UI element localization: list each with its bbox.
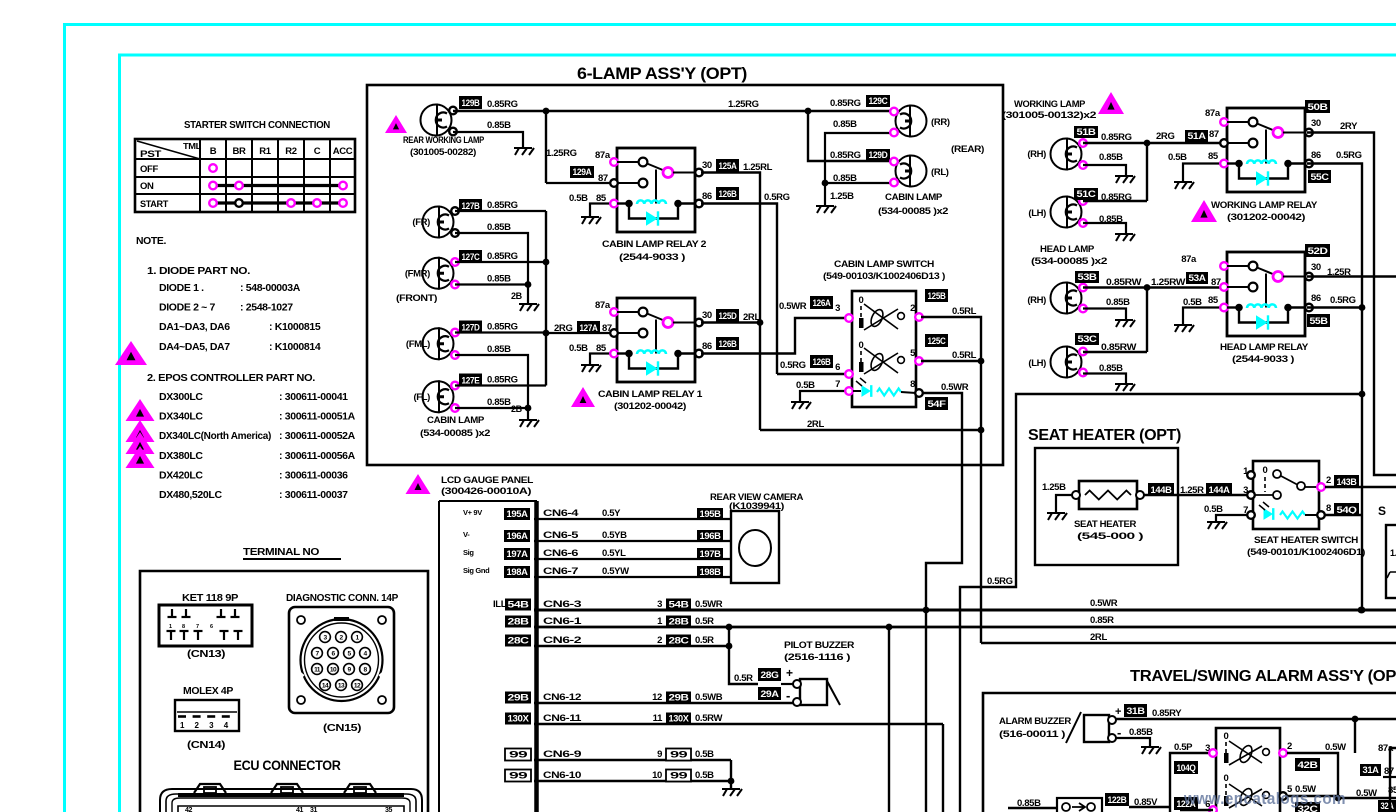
svg-text:(FML): (FML) <box>406 339 430 350</box>
svg-text:31: 31 <box>310 807 318 812</box>
svg-text:DX480,520LC: DX480,520LC <box>159 489 222 501</box>
svg-text:(RH): (RH) <box>1027 295 1046 306</box>
svg-text:B: B <box>210 146 217 157</box>
svg-text:30: 30 <box>702 310 712 321</box>
svg-text:0.85B: 0.85B <box>487 222 511 233</box>
svg-text:28B: 28B <box>669 617 690 627</box>
svg-text:0.5R: 0.5R <box>695 635 714 646</box>
svg-text:54Q: 54Q <box>1337 505 1357 515</box>
svg-text:PST: PST <box>140 149 162 160</box>
svg-text:2RL: 2RL <box>1090 632 1107 643</box>
svg-text:196B: 196B <box>700 531 722 541</box>
svg-text:8: 8 <box>1326 503 1331 514</box>
svg-text:CN6-2: CN6-2 <box>543 635 581 646</box>
svg-text:2RG: 2RG <box>1156 131 1174 142</box>
svg-text:2B: 2B <box>511 291 523 301</box>
svg-text:(301005-00282): (301005-00282) <box>410 147 476 158</box>
svg-text:WORKING LAMP: WORKING LAMP <box>1014 99 1086 110</box>
svg-text:(LH): (LH) <box>1028 208 1046 219</box>
svg-text:0.5WR: 0.5WR <box>779 301 807 312</box>
svg-text:126B: 126B <box>813 357 832 367</box>
svg-text:10: 10 <box>652 770 662 781</box>
svg-text:: 300611-00037: : 300611-00037 <box>279 489 348 501</box>
svg-text:: 300611-00041: : 300611-00041 <box>279 391 348 403</box>
svg-text:125A: 125A <box>719 161 738 171</box>
svg-text:2B: 2B <box>511 404 523 414</box>
svg-text:0.5B: 0.5B <box>1183 297 1202 308</box>
svg-text:1.25R: 1.25R <box>1180 485 1204 496</box>
svg-text:R2: R2 <box>285 146 297 157</box>
svg-text:0.85B: 0.85B <box>487 344 511 355</box>
svg-text:DX340LC(North America): DX340LC(North America) <box>159 430 271 442</box>
svg-text:+: + <box>786 666 793 680</box>
svg-text:9: 9 <box>657 749 662 760</box>
svg-text:0.5W: 0.5W <box>1325 742 1346 753</box>
svg-text:(FR): (FR) <box>412 217 430 228</box>
svg-text:(545-000 ): (545-000 ) <box>1077 531 1143 542</box>
svg-text:87a: 87a <box>595 300 611 311</box>
svg-text:(RL): (RL) <box>931 167 949 178</box>
svg-text:28C: 28C <box>508 636 530 646</box>
svg-text:0.5WR: 0.5WR <box>941 382 969 393</box>
svg-text:0.85B: 0.85B <box>487 397 511 408</box>
svg-text:(CN15): (CN15) <box>323 722 361 734</box>
svg-text:2: 2 <box>910 303 915 314</box>
svg-text:86: 86 <box>702 341 712 352</box>
svg-text:2: 2 <box>657 635 662 646</box>
svg-text:144B: 144B <box>1151 485 1173 495</box>
svg-text:30: 30 <box>1311 262 1321 273</box>
svg-text:130X: 130X <box>669 714 689 724</box>
svg-text:12: 12 <box>652 692 662 703</box>
svg-text:144A: 144A <box>1209 485 1231 495</box>
svg-text:129C: 129C <box>869 96 889 106</box>
svg-text:0.85B: 0.85B <box>1099 363 1123 374</box>
svg-text:122B: 122B <box>1108 795 1128 805</box>
svg-text:2: 2 <box>1287 741 1292 752</box>
svg-text:: 300611-00056A: : 300611-00056A <box>279 450 356 462</box>
svg-text:87a: 87a <box>1181 254 1197 265</box>
svg-text:99: 99 <box>670 771 688 781</box>
svg-text:(534-00085 )x2: (534-00085 )x2 <box>878 206 948 217</box>
svg-text:OFF: OFF <box>140 164 158 175</box>
svg-text:125B: 125B <box>928 291 947 301</box>
svg-text:0.5WB: 0.5WB <box>695 692 723 703</box>
svg-text:SEAT HEATER (OPT): SEAT HEATER (OPT) <box>1028 427 1181 444</box>
svg-text:: K1000814: : K1000814 <box>269 341 321 353</box>
svg-text:START: START <box>140 199 169 210</box>
svg-text:STARTER SWITCH CONNECTION: STARTER SWITCH CONNECTION <box>184 119 330 131</box>
svg-text:130X: 130X <box>508 714 529 724</box>
svg-text:CN6-4: CN6-4 <box>543 508 579 519</box>
svg-text:0.85B: 0.85B <box>1099 152 1123 163</box>
svg-text:28G: 28G <box>761 670 779 680</box>
svg-text:LCD GAUGE PANEL: LCD GAUGE PANEL <box>441 475 534 486</box>
svg-text:28B: 28B <box>508 617 530 627</box>
svg-text:6: 6 <box>835 362 840 373</box>
svg-text:+: + <box>1115 706 1121 718</box>
svg-text:(2544-9033 ): (2544-9033 ) <box>1232 354 1294 365</box>
svg-text:ACC: ACC <box>333 146 353 157</box>
svg-text:85: 85 <box>1208 295 1219 306</box>
svg-text:0.5Y: 0.5Y <box>602 508 621 519</box>
svg-text:2RL: 2RL <box>807 419 824 430</box>
svg-text:0.5RW: 0.5RW <box>695 713 722 724</box>
svg-text:CABIN LAMP: CABIN LAMP <box>427 415 485 426</box>
svg-text:0.85RG: 0.85RG <box>830 98 861 109</box>
svg-text:: K1000815: : K1000815 <box>269 321 321 333</box>
svg-text:127E: 127E <box>462 376 480 386</box>
svg-text:86: 86 <box>702 191 712 202</box>
svg-text:197A: 197A <box>507 549 529 559</box>
svg-text:CABIN LAMP RELAY 1: CABIN LAMP RELAY 1 <box>598 389 703 400</box>
svg-text:28C: 28C <box>669 636 690 646</box>
svg-text:87a: 87a <box>1205 108 1221 119</box>
svg-text:: 300611-00051A: : 300611-00051A <box>279 411 356 423</box>
svg-text:0.85B: 0.85B <box>1106 297 1130 308</box>
svg-text:DA4~DA5, DA7: DA4~DA5, DA7 <box>159 341 230 353</box>
svg-text:0.5B: 0.5B <box>695 749 714 760</box>
svg-text:198B: 198B <box>700 567 722 577</box>
svg-text:14: 14 <box>322 683 329 690</box>
svg-text:195B: 195B <box>700 509 722 519</box>
svg-text:(FRONT): (FRONT) <box>396 293 437 304</box>
svg-text:(516-00011 ): (516-00011 ) <box>999 729 1065 740</box>
svg-text:1.: 1. <box>1390 548 1396 558</box>
svg-text:DX380LC: DX380LC <box>159 450 203 462</box>
svg-text:196A: 196A <box>507 531 529 541</box>
svg-text:0.5WR: 0.5WR <box>695 599 723 610</box>
svg-text:1.25RG: 1.25RG <box>728 99 759 110</box>
svg-text:127A: 127A <box>580 323 599 333</box>
svg-text:0: 0 <box>1263 465 1268 476</box>
svg-text:: 548-00003A: : 548-00003A <box>240 282 301 294</box>
svg-text:(CN13): (CN13) <box>187 648 225 660</box>
svg-text:ECU CONNECTOR: ECU CONNECTOR <box>234 758 342 773</box>
svg-text:53B: 53B <box>1078 272 1098 282</box>
svg-text:51C: 51C <box>1077 189 1097 199</box>
svg-text:(534-00085 )x2: (534-00085 )x2 <box>420 428 490 439</box>
svg-text:0.85RG: 0.85RG <box>830 150 861 161</box>
svg-text:195A: 195A <box>507 509 529 519</box>
svg-text:CN6-3: CN6-3 <box>543 599 581 610</box>
svg-text:10: 10 <box>330 667 337 674</box>
svg-text:R1: R1 <box>259 146 272 157</box>
svg-text:TRAVEL/SWING ALARM ASS'Y (OP: TRAVEL/SWING ALARM ASS'Y (OP <box>1130 668 1396 685</box>
svg-text:7: 7 <box>835 379 840 390</box>
svg-text:55C: 55C <box>1311 172 1330 182</box>
svg-text:REAR WORKING LAMP: REAR WORKING LAMP <box>403 135 485 146</box>
svg-text:0.85RG: 0.85RG <box>487 200 518 211</box>
svg-text:-: - <box>786 688 790 703</box>
svg-text:0.5B: 0.5B <box>569 193 588 204</box>
svg-text:29B: 29B <box>508 693 530 703</box>
svg-text:MOLEX 4P: MOLEX 4P <box>183 685 233 697</box>
svg-text:: 300611-00036: : 300611-00036 <box>279 469 348 481</box>
svg-text:0: 0 <box>859 340 864 351</box>
svg-text:29B: 29B <box>669 693 690 703</box>
svg-text:0.5YL: 0.5YL <box>602 548 626 559</box>
svg-text:(534-00085 )x2: (534-00085 )x2 <box>1031 256 1107 267</box>
svg-text:0.85B: 0.85B <box>487 120 511 131</box>
svg-text:DA1~DA3, DA6: DA1~DA3, DA6 <box>159 321 230 333</box>
svg-text:CN6-12: CN6-12 <box>543 692 581 703</box>
svg-text:0.5B: 0.5B <box>1204 504 1223 515</box>
svg-text:42: 42 <box>185 807 193 812</box>
svg-text:129D: 129D <box>869 150 889 160</box>
svg-text:127B: 127B <box>462 201 481 211</box>
svg-text:0.85RG: 0.85RG <box>487 251 518 262</box>
svg-text:29A: 29A <box>761 689 780 699</box>
svg-text:1. DIODE PART NO.: 1. DIODE PART NO. <box>147 265 250 277</box>
svg-text:CN6-1: CN6-1 <box>543 616 583 627</box>
svg-text:6: 6 <box>210 624 213 630</box>
svg-text:CN6-10: CN6-10 <box>543 770 581 781</box>
svg-text:32A: 32A <box>1381 801 1395 811</box>
svg-text:1.25B: 1.25B <box>1042 482 1066 493</box>
svg-text:198A: 198A <box>507 567 529 577</box>
svg-text:0.5RG: 0.5RG <box>987 576 1013 587</box>
svg-text:0.5YW: 0.5YW <box>602 566 629 577</box>
svg-text:0.5RG: 0.5RG <box>780 360 806 371</box>
svg-text:ILL: ILL <box>493 599 507 610</box>
svg-text:(2516-1116 ): (2516-1116 ) <box>784 652 850 663</box>
svg-text:0.85B: 0.85B <box>487 274 511 285</box>
svg-text:CN6-7: CN6-7 <box>543 566 578 577</box>
svg-text:DX300LC: DX300LC <box>159 391 203 403</box>
svg-text:0.5R: 0.5R <box>734 673 753 684</box>
svg-text:CN6-9: CN6-9 <box>543 749 581 760</box>
svg-text:6-LAMP ASS'Y (OPT): 6-LAMP ASS'Y (OPT) <box>577 65 747 83</box>
svg-text:(RR): (RR) <box>931 117 950 128</box>
svg-text:127C: 127C <box>462 252 481 262</box>
svg-text:35: 35 <box>385 807 393 812</box>
svg-text:Sig Gnd: Sig Gnd <box>463 566 490 575</box>
svg-text:87: 87 <box>1209 129 1219 140</box>
svg-text:HEAD LAMP RELAY: HEAD LAMP RELAY <box>1220 342 1309 353</box>
svg-text:125C: 125C <box>928 336 947 346</box>
svg-text:(LH): (LH) <box>1028 358 1046 369</box>
svg-text:104Q: 104Q <box>1177 763 1196 773</box>
svg-text:0.85RG: 0.85RG <box>1101 132 1132 143</box>
svg-text:3: 3 <box>657 599 662 610</box>
svg-text:V+ 9V: V+ 9V <box>463 508 482 517</box>
svg-text:125D: 125D <box>719 311 738 321</box>
svg-text:(RH): (RH) <box>1027 149 1046 160</box>
svg-text:0.85B: 0.85B <box>1129 727 1153 738</box>
svg-text:86: 86 <box>1311 293 1321 304</box>
svg-text:www.epcatalogs.com: www.epcatalogs.com <box>1183 789 1346 808</box>
svg-text:0.5WR: 0.5WR <box>1090 598 1118 609</box>
svg-text:0.5B: 0.5B <box>1168 152 1187 163</box>
svg-text:30: 30 <box>702 160 712 171</box>
svg-text:(CN14): (CN14) <box>187 739 225 751</box>
svg-text:S: S <box>1378 504 1386 518</box>
svg-text:NOTE.: NOTE. <box>136 235 166 247</box>
svg-text:54B: 54B <box>669 600 690 610</box>
svg-text:54B: 54B <box>508 600 530 610</box>
svg-text:(549-00101/K1002406D1): (549-00101/K1002406D1) <box>1247 547 1365 558</box>
svg-text:SEAT HEATER: SEAT HEATER <box>1074 519 1136 530</box>
svg-text:7: 7 <box>196 624 199 630</box>
svg-text:0.5RG: 0.5RG <box>1336 150 1362 161</box>
svg-text:99: 99 <box>509 750 528 760</box>
svg-text:0.5P: 0.5P <box>1174 742 1193 753</box>
svg-text:0: 0 <box>1224 731 1229 742</box>
svg-text:99: 99 <box>670 750 688 760</box>
svg-text:1: 1 <box>169 624 172 630</box>
svg-text:52D: 52D <box>1308 246 1329 256</box>
svg-text:CN6-5: CN6-5 <box>543 530 579 541</box>
svg-text:Sig: Sig <box>463 548 474 557</box>
svg-text:(301202-00042): (301202-00042) <box>1227 212 1305 223</box>
svg-text:129B: 129B <box>462 98 481 108</box>
svg-text:CABIN LAMP: CABIN LAMP <box>885 192 943 203</box>
svg-text:42B: 42B <box>1298 760 1319 770</box>
svg-text:DIODE 2 ~ 7: DIODE 2 ~ 7 <box>159 302 215 314</box>
svg-text:126A: 126A <box>813 298 832 308</box>
svg-text:1.25RG: 1.25RG <box>546 148 577 159</box>
svg-text:0.5RG: 0.5RG <box>1330 295 1356 306</box>
svg-text:SEAT HEATER SWITCH: SEAT HEATER SWITCH <box>1254 535 1359 546</box>
svg-text:53A: 53A <box>1189 273 1207 283</box>
svg-text:0.5RG: 0.5RG <box>764 192 790 203</box>
svg-text:0.85RG: 0.85RG <box>487 99 518 110</box>
svg-text:0.5RL: 0.5RL <box>952 306 977 317</box>
svg-text:31A: 31A <box>1363 765 1380 775</box>
svg-text:0.5RL: 0.5RL <box>952 350 977 361</box>
svg-text:(REAR): (REAR) <box>951 144 984 155</box>
svg-text:99: 99 <box>509 771 528 781</box>
svg-text:85: 85 <box>1208 151 1219 162</box>
svg-text:54F: 54F <box>928 399 947 409</box>
svg-text:0.5B: 0.5B <box>695 770 714 781</box>
svg-text:(301202-00042): (301202-00042) <box>614 401 686 412</box>
svg-text:85: 85 <box>596 343 607 354</box>
svg-text:DIAGNOSTIC CONN. 14P: DIAGNOSTIC CONN. 14P <box>286 592 398 604</box>
svg-text:(2544-9033 ): (2544-9033 ) <box>619 252 685 263</box>
svg-text:31B: 31B <box>1127 706 1146 716</box>
svg-text:C: C <box>314 146 321 157</box>
svg-text:13: 13 <box>338 683 345 690</box>
svg-text:BR: BR <box>232 146 246 157</box>
svg-text:3: 3 <box>835 303 840 314</box>
svg-text:2: 2 <box>1326 475 1331 486</box>
svg-text:WORKING LAMP RELAY: WORKING LAMP RELAY <box>1211 200 1318 211</box>
svg-text:ON: ON <box>140 181 154 192</box>
svg-text:53C: 53C <box>1078 334 1098 344</box>
svg-text:TML: TML <box>183 141 201 151</box>
svg-text:51A: 51A <box>1188 131 1207 141</box>
svg-text:11: 11 <box>314 667 321 674</box>
svg-text:CABIN LAMP SWITCH: CABIN LAMP SWITCH <box>834 259 935 270</box>
svg-text:0.85RG: 0.85RG <box>487 322 518 333</box>
svg-text:CN6-6: CN6-6 <box>543 548 578 559</box>
svg-text:126B: 126B <box>719 189 738 199</box>
svg-text:197B: 197B <box>700 549 722 559</box>
svg-text:0: 0 <box>859 295 864 306</box>
svg-text:DIODE 1 .: DIODE 1 . <box>159 282 204 294</box>
svg-text:0.5YB: 0.5YB <box>602 530 627 541</box>
svg-text:DX420LC: DX420LC <box>159 469 203 481</box>
svg-text:: 300611-00052A: : 300611-00052A <box>279 430 356 442</box>
svg-text:V-: V- <box>463 530 470 539</box>
svg-text:CN6-11: CN6-11 <box>543 713 582 724</box>
svg-text:0: 0 <box>1224 773 1229 784</box>
svg-text:0.85RG: 0.85RG <box>487 375 518 386</box>
svg-text:0.5B: 0.5B <box>569 343 588 354</box>
svg-text:0.5B: 0.5B <box>796 380 815 391</box>
svg-text:2. EPOS CONTROLLER PART NO.: 2. EPOS CONTROLLER PART NO. <box>147 372 315 384</box>
svg-text:11: 11 <box>653 713 663 724</box>
svg-text:0.85B: 0.85B <box>833 119 857 130</box>
svg-text:1.25B: 1.25B <box>830 191 854 202</box>
svg-text:CABIN LAMP RELAY 2: CABIN LAMP RELAY 2 <box>602 239 706 250</box>
svg-text:(549-00103/K1002406D13 ): (549-00103/K1002406D13 ) <box>823 271 945 282</box>
svg-text:86: 86 <box>1311 150 1321 161</box>
svg-text:126B: 126B <box>719 339 738 349</box>
svg-text:: 2548-1027: : 2548-1027 <box>240 302 293 314</box>
svg-text:8: 8 <box>182 624 185 630</box>
svg-text:127D: 127D <box>462 323 481 333</box>
svg-text:2RY: 2RY <box>1340 121 1358 132</box>
svg-text:8: 8 <box>910 379 915 390</box>
svg-text:DX340LC: DX340LC <box>159 411 203 423</box>
svg-text:0.5W: 0.5W <box>1356 788 1377 799</box>
svg-text:KET 118 9P: KET 118 9P <box>182 592 238 604</box>
svg-text:ALARM BUZZER: ALARM BUZZER <box>999 716 1071 727</box>
svg-text:50B: 50B <box>1308 102 1329 112</box>
svg-text:30: 30 <box>1311 118 1321 129</box>
svg-text:(FMR): (FMR) <box>405 268 430 279</box>
svg-text:0.85R: 0.85R <box>1090 615 1114 626</box>
svg-text:51B: 51B <box>1077 127 1097 137</box>
svg-text:TERMINAL NO: TERMINAL NO <box>243 546 319 558</box>
svg-text:HEAD LAMP: HEAD LAMP <box>1040 244 1095 255</box>
svg-text:PILOT BUZZER: PILOT BUZZER <box>784 640 855 651</box>
svg-text:87a: 87a <box>595 150 611 161</box>
svg-text:(301005-00132)x2: (301005-00132)x2 <box>1002 110 1096 121</box>
svg-text:0.5R: 0.5R <box>695 616 714 627</box>
svg-text:129A: 129A <box>573 167 593 177</box>
svg-text:(300426-00010A): (300426-00010A) <box>441 486 531 497</box>
svg-text:85: 85 <box>596 193 607 204</box>
svg-text:12: 12 <box>354 683 361 690</box>
svg-text:55B: 55B <box>1310 316 1329 326</box>
svg-text:0.85RY: 0.85RY <box>1152 708 1182 719</box>
svg-text:41: 41 <box>296 807 304 812</box>
svg-text:143B: 143B <box>1337 477 1358 487</box>
